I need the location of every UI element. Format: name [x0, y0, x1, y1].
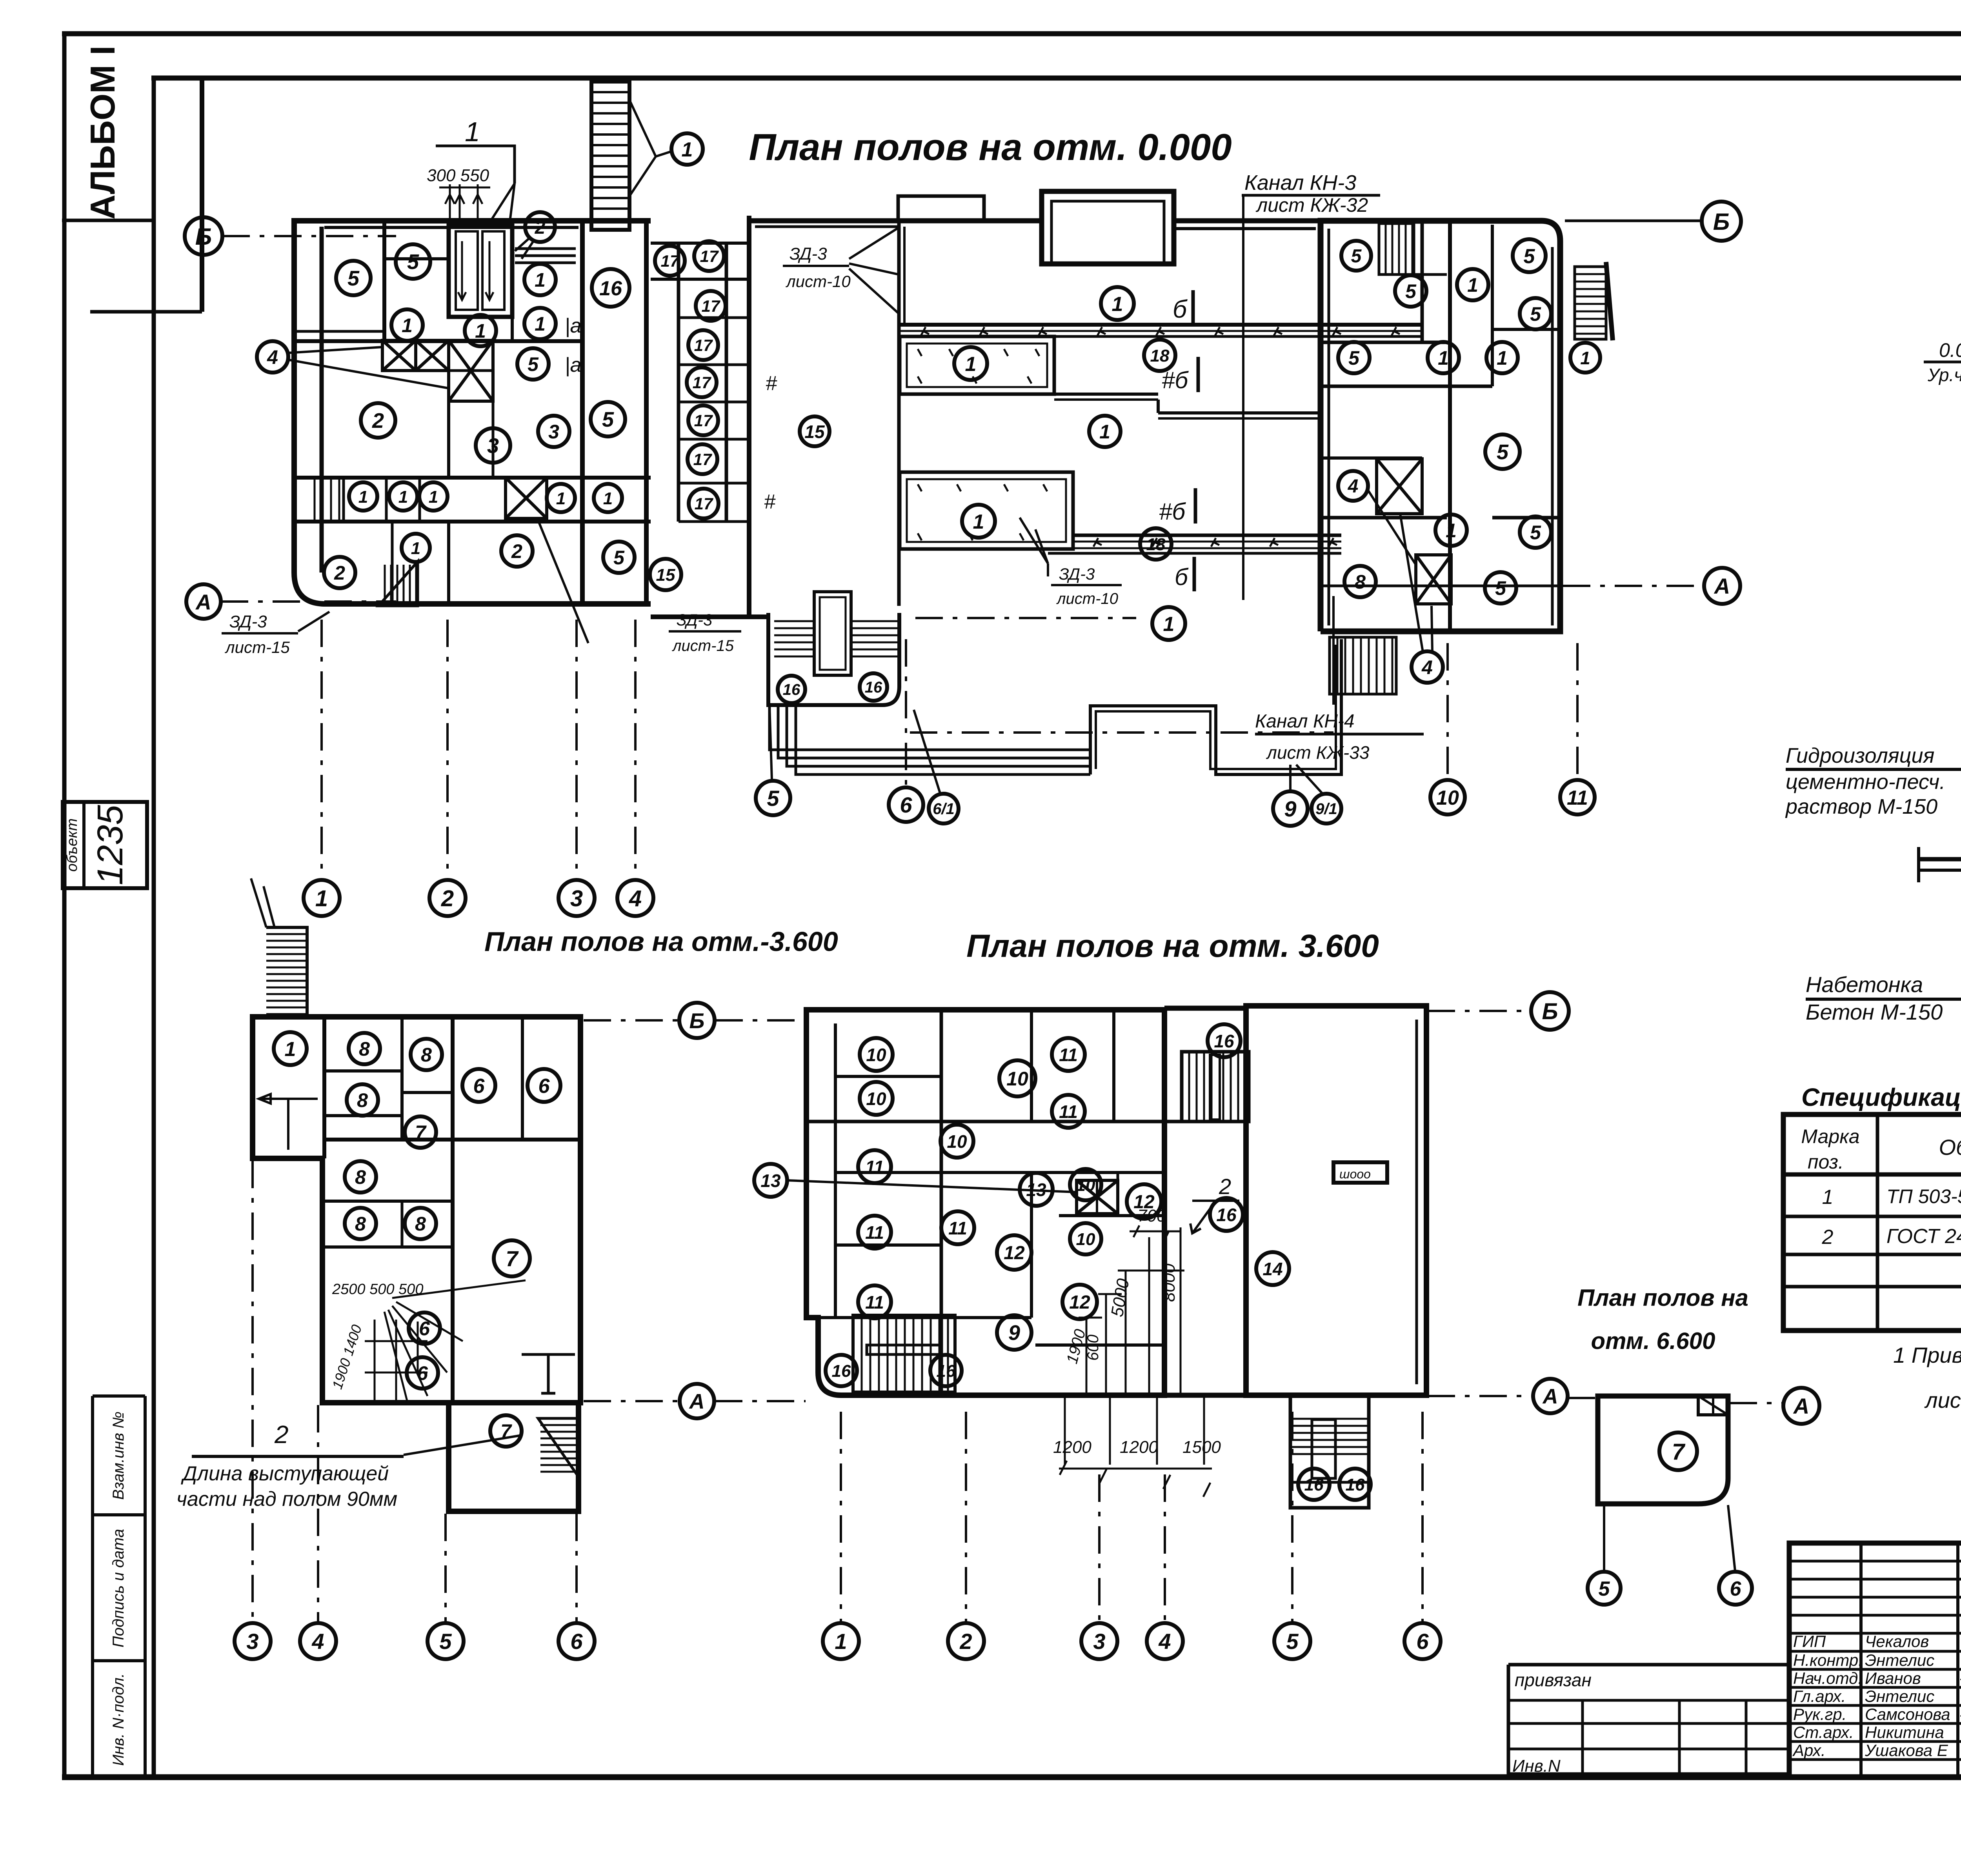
svg-text:Подпись и дата: Подпись и дата — [110, 1529, 127, 1648]
svg-text:1: 1 — [556, 489, 566, 508]
svg-text:План полов на: План полов на — [1577, 1285, 1748, 1311]
svg-text:18: 18 — [1146, 535, 1166, 554]
svg-text:5: 5 — [602, 408, 614, 431]
svg-text:лист-15: лист-15 — [672, 637, 734, 654]
svg-text:Гл.арх.: Гл.арх. — [1793, 1687, 1846, 1705]
svg-text:14: 14 — [1262, 1259, 1282, 1279]
svg-text:#: # — [764, 491, 776, 513]
svg-text:3: 3 — [246, 1629, 258, 1654]
svg-text:16: 16 — [599, 277, 622, 300]
svg-text:1: 1 — [973, 511, 984, 533]
svg-text:Марка: Марка — [1801, 1125, 1859, 1147]
svg-text:9: 9 — [1284, 796, 1296, 821]
svg-text:10: 10 — [1076, 1230, 1095, 1249]
svg-text:Взам.инв №: Взам.инв № — [110, 1411, 127, 1500]
svg-text:Канал КН-4: Канал КН-4 — [1255, 711, 1355, 732]
svg-text:9: 9 — [1008, 1321, 1020, 1345]
svg-text:8: 8 — [415, 1213, 426, 1235]
svg-text:10: 10 — [866, 1045, 886, 1065]
svg-text:Инв.N: Инв.N — [1512, 1756, 1561, 1776]
svg-text:Н.контр.: Н.контр. — [1793, 1651, 1863, 1669]
svg-text:#: # — [766, 372, 777, 395]
svg-text:Чекалов: Чекалов — [1865, 1632, 1929, 1651]
svg-text:2: 2 — [511, 540, 522, 562]
svg-text:5: 5 — [613, 547, 625, 569]
svg-text:18: 18 — [1150, 346, 1170, 365]
svg-text:4: 4 — [1348, 476, 1359, 497]
svg-text:15: 15 — [804, 422, 825, 442]
svg-text:1: 1 — [682, 138, 693, 161]
svg-text:лист-10: лист-10 — [1056, 590, 1118, 607]
svg-text:1: 1 — [315, 886, 328, 911]
svg-text:|а: |а — [565, 314, 581, 337]
svg-text:7: 7 — [506, 1246, 519, 1271]
svg-text:раствор М-150: раствор М-150 — [1785, 795, 1937, 818]
svg-text:10: 10 — [866, 1089, 886, 1109]
svg-text:6: 6 — [538, 1075, 550, 1098]
svg-text:лист-15: лист-15 — [224, 638, 290, 656]
svg-text:17: 17 — [693, 373, 711, 392]
svg-text:10: 10 — [1436, 787, 1459, 809]
svg-text:5: 5 — [1524, 245, 1535, 268]
svg-text:Самсонова: Самсонова — [1865, 1705, 1950, 1723]
svg-text:А: А — [1714, 574, 1730, 598]
svg-text:5: 5 — [1599, 1578, 1610, 1600]
svg-text:10: 10 — [1076, 1176, 1095, 1195]
svg-text:3: 3 — [548, 421, 559, 443]
svg-text:16: 16 — [1216, 1205, 1237, 1225]
svg-text:15: 15 — [656, 565, 675, 585]
svg-text:6: 6 — [473, 1075, 485, 1098]
svg-text:5: 5 — [767, 786, 779, 811]
svg-text:7: 7 — [415, 1122, 427, 1143]
svg-text:16: 16 — [865, 679, 882, 696]
svg-text:1235: 1235 — [90, 805, 130, 885]
svg-text:8: 8 — [355, 1166, 366, 1188]
svg-text:Энтелис: Энтелис — [1865, 1651, 1934, 1669]
svg-text:Бетон М-150: Бетон М-150 — [1806, 1000, 1943, 1024]
svg-text:ЗД-3: ЗД-3 — [677, 611, 712, 629]
svg-text:5000: 5000 — [1108, 1277, 1133, 1318]
svg-text:1: 1 — [1497, 347, 1508, 369]
svg-text:Б: Б — [195, 224, 212, 250]
svg-text:8: 8 — [357, 1089, 368, 1111]
svg-text:1: 1 — [285, 1038, 296, 1061]
svg-text:3: 3 — [487, 434, 499, 458]
svg-text:Нач.отд.: Нач.отд. — [1793, 1669, 1863, 1687]
svg-text:11: 11 — [1059, 1102, 1078, 1122]
svg-text:привязан: привязан — [1515, 1670, 1592, 1690]
svg-text:2: 2 — [535, 217, 546, 238]
svg-text:1900 1400: 1900 1400 — [329, 1323, 365, 1391]
svg-text:Арх.: Арх. — [1792, 1741, 1826, 1760]
svg-text:Б: Б — [1713, 209, 1730, 235]
svg-text:1: 1 — [535, 313, 546, 335]
svg-text:Обозначение: Обозначение — [1939, 1135, 1961, 1160]
svg-text:Набетонка: Набетонка — [1806, 972, 1923, 997]
svg-text:План полов на отм. 3.600: План полов на отм. 3.600 — [966, 928, 1379, 964]
svg-text:1: 1 — [358, 487, 368, 507]
svg-text:части над полом 90мм: части над полом 90мм — [176, 1488, 397, 1511]
svg-text:5: 5 — [528, 353, 539, 375]
svg-text:10: 10 — [1006, 1068, 1028, 1090]
svg-text:листе - 33.: листе - 33. — [1924, 1388, 1961, 1412]
svg-text:цементно-песч.: цементно-песч. — [1786, 770, 1945, 794]
svg-text:Канал КН-3: Канал КН-3 — [1244, 171, 1356, 195]
svg-text:А: А — [195, 590, 211, 614]
svg-text:4: 4 — [311, 1629, 324, 1654]
svg-text:2: 2 — [959, 1629, 972, 1654]
svg-text:2: 2 — [274, 1420, 289, 1449]
svg-text:лист КЖ-33: лист КЖ-33 — [1266, 742, 1370, 763]
svg-text:17: 17 — [694, 336, 713, 354]
svg-text:Энтелис: Энтелис — [1865, 1687, 1934, 1705]
svg-text:5: 5 — [407, 250, 419, 274]
svg-text:8: 8 — [359, 1038, 370, 1060]
svg-text:ЗД-3: ЗД-3 — [789, 244, 827, 264]
svg-text:ГОСТ 24379.1 - 80: ГОСТ 24379.1 - 80 — [1886, 1225, 1961, 1248]
svg-text:2: 2 — [334, 562, 345, 584]
svg-text:|а: |а — [565, 354, 581, 376]
svg-text:А: А — [689, 1390, 705, 1413]
svg-text:2: 2 — [1219, 1174, 1231, 1199]
svg-text:1: 1 — [398, 487, 408, 507]
svg-text:16: 16 — [783, 681, 800, 698]
svg-text:1: 1 — [411, 539, 420, 558]
svg-text:17: 17 — [694, 411, 713, 430]
svg-text:12: 12 — [1069, 1292, 1090, 1313]
svg-text:6: 6 — [900, 793, 912, 817]
svg-text:17: 17 — [700, 247, 719, 265]
svg-text:11: 11 — [865, 1292, 884, 1312]
svg-text:Ур.ч.п.: Ур.ч.п. — [1927, 365, 1961, 385]
svg-text:1: 1 — [965, 353, 977, 376]
svg-text:Гидроизоляция: Гидроизоляция — [1786, 744, 1934, 767]
svg-text:16: 16 — [1346, 1475, 1365, 1494]
svg-text:1: 1 — [835, 1629, 847, 1654]
svg-text:ТП 503-5-12.85 АСИ МН3: ТП 503-5-12.85 АСИ МН3 — [1886, 1185, 1961, 1207]
svg-text:ГИП: ГИП — [1793, 1632, 1826, 1651]
svg-text:Никитина: Никитина — [1865, 1723, 1944, 1741]
svg-text:1: 1 — [1467, 274, 1478, 296]
svg-text:План полов на отм.-3.600: План полов на отм.-3.600 — [484, 926, 838, 957]
svg-text:поз.: поз. — [1808, 1151, 1844, 1173]
svg-text:АЛЬБОМ I: АЛЬБОМ I — [83, 45, 122, 220]
svg-text:11: 11 — [865, 1222, 884, 1243]
svg-text:1: 1 — [465, 116, 480, 147]
svg-text:4: 4 — [1421, 656, 1433, 678]
svg-text:1: 1 — [1112, 293, 1123, 316]
svg-text:2: 2 — [1822, 1226, 1834, 1249]
svg-text:Иванов: Иванов — [1865, 1669, 1921, 1687]
svg-text:#б: #б — [1162, 367, 1189, 393]
svg-text:700: 700 — [1137, 1206, 1166, 1225]
svg-text:8: 8 — [1355, 571, 1366, 593]
svg-text:9/1: 9/1 — [1315, 800, 1337, 818]
svg-text:5: 5 — [1348, 347, 1360, 369]
svg-text:1: 1 — [1438, 347, 1449, 369]
svg-text:1200: 1200 — [1120, 1438, 1158, 1457]
svg-text:1 Привязку закладных деталей З: 1 Привязку закладных деталей ЗД-3 в полу… — [1893, 1343, 1961, 1367]
svg-text:1: 1 — [1099, 421, 1110, 443]
svg-text:7: 7 — [1672, 1439, 1686, 1465]
svg-text:5: 5 — [439, 1629, 452, 1654]
svg-text:13: 13 — [760, 1171, 781, 1191]
svg-text:2: 2 — [372, 409, 384, 433]
svg-text:4: 4 — [1158, 1629, 1171, 1654]
svg-text:1500: 1500 — [1182, 1438, 1221, 1457]
svg-text:4: 4 — [267, 346, 278, 368]
svg-text:8: 8 — [421, 1044, 432, 1066]
svg-text:1200: 1200 — [1053, 1438, 1091, 1457]
svg-text:1: 1 — [535, 269, 546, 291]
svg-text:17: 17 — [702, 297, 720, 315]
svg-text:2: 2 — [441, 886, 454, 911]
svg-text:1: 1 — [475, 320, 486, 342]
svg-text:А: А — [1793, 1394, 1809, 1418]
svg-text:Б: Б — [1542, 999, 1558, 1024]
svg-text:5: 5 — [1351, 246, 1362, 267]
svg-text:объект: объект — [64, 818, 80, 872]
svg-text:Ст.арх.: Ст.арх. — [1793, 1723, 1854, 1741]
svg-text:5: 5 — [347, 267, 360, 290]
svg-text:11: 11 — [1059, 1045, 1078, 1065]
svg-text:ЗД-3: ЗД-3 — [229, 612, 267, 631]
svg-text:отм. 6.600: отм. 6.600 — [1591, 1328, 1715, 1354]
svg-text:300 550: 300 550 — [427, 166, 489, 185]
svg-text:5: 5 — [1286, 1629, 1299, 1654]
svg-text:#б: #б — [1159, 498, 1186, 525]
svg-text:16: 16 — [1214, 1031, 1234, 1051]
svg-text:1: 1 — [429, 487, 438, 507]
svg-text:лист-10: лист-10 — [785, 272, 851, 291]
svg-text:0.000: 0.000 — [1939, 339, 1961, 361]
svg-text:17: 17 — [695, 494, 713, 513]
svg-text:1: 1 — [402, 314, 413, 336]
svg-text:А: А — [1542, 1385, 1558, 1408]
svg-text:Длина выступающей: Длина выступающей — [181, 1462, 389, 1485]
svg-text:6: 6 — [570, 1629, 583, 1654]
svg-text:12: 12 — [1004, 1243, 1025, 1263]
svg-text:Рук.гр.: Рук.гр. — [1793, 1705, 1846, 1723]
svg-text:11: 11 — [1567, 787, 1588, 809]
svg-text:1: 1 — [603, 489, 613, 508]
svg-text:4: 4 — [629, 886, 642, 911]
svg-text:6: 6 — [1416, 1629, 1429, 1654]
svg-text:10: 10 — [947, 1131, 967, 1152]
svg-text:16: 16 — [1304, 1475, 1324, 1494]
svg-text:б: б — [1173, 295, 1188, 323]
svg-text:5: 5 — [1405, 280, 1417, 302]
svg-text:1: 1 — [1822, 1186, 1834, 1209]
svg-text:Б: Б — [689, 1009, 705, 1033]
svg-text:5: 5 — [1495, 577, 1506, 599]
svg-text:1: 1 — [1446, 520, 1457, 542]
svg-text:16: 16 — [937, 1362, 956, 1381]
svg-text:Спецификация закладных элемент: Спецификация закладных элементов в полу. — [1801, 1083, 1961, 1111]
svg-text:ЗД-3: ЗД-3 — [1059, 565, 1095, 583]
svg-text:11: 11 — [948, 1218, 967, 1238]
svg-text:17: 17 — [661, 252, 680, 270]
svg-text:11: 11 — [865, 1157, 884, 1177]
svg-text:шооо: шооо — [1339, 1167, 1371, 1181]
svg-text:5: 5 — [1530, 303, 1541, 325]
svg-text:16: 16 — [832, 1362, 851, 1381]
svg-text:8: 8 — [355, 1213, 366, 1235]
svg-text:План полов на отм. 0.000: План полов на отм. 0.000 — [749, 126, 1232, 168]
svg-text:Ушакова Е: Ушакова Е — [1865, 1741, 1948, 1760]
svg-text:б: б — [1175, 564, 1189, 590]
svg-text:Инв. N·подл.: Инв. N·подл. — [110, 1673, 127, 1766]
svg-text:5: 5 — [1530, 522, 1541, 544]
svg-text:6/1: 6/1 — [933, 800, 955, 818]
svg-text:1: 1 — [1580, 348, 1590, 368]
svg-text:3: 3 — [1093, 1629, 1105, 1654]
svg-text:3: 3 — [570, 886, 583, 911]
svg-text:17: 17 — [693, 450, 712, 469]
svg-text:1: 1 — [1163, 613, 1175, 636]
svg-text:6: 6 — [1730, 1578, 1742, 1600]
svg-text:8000: 8000 — [1159, 1263, 1179, 1302]
svg-text:лист КЖ-32: лист КЖ-32 — [1255, 194, 1368, 216]
svg-text:5: 5 — [1497, 440, 1509, 464]
